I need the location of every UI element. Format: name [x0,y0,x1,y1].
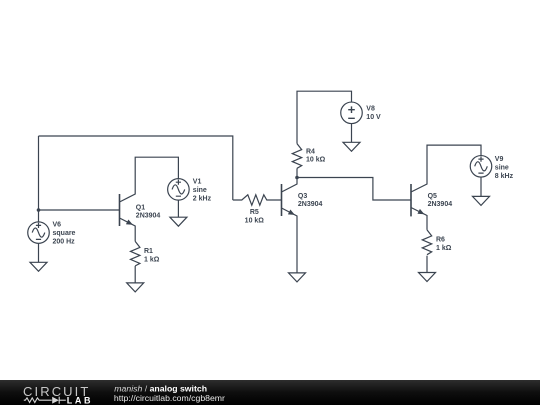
svg-text:1 kΩ: 1 kΩ [144,256,160,263]
svg-text:R1: R1 [144,248,153,255]
svg-text:http://circuitlab.com/cgb8emr: http://circuitlab.com/cgb8emr [114,393,225,403]
svg-text:2N3904: 2N3904 [298,201,323,208]
svg-text:10 kΩ: 10 kΩ [306,157,326,164]
svg-text:1 kΩ: 1 kΩ [436,245,452,252]
svg-text:2 kHz: 2 kHz [193,195,212,202]
svg-text:10 kΩ: 10 kΩ [245,218,265,225]
svg-text:2N3904: 2N3904 [136,213,161,220]
svg-text:200 Hz: 200 Hz [53,239,76,246]
svg-text:V8: V8 [366,106,375,113]
svg-text:R4: R4 [306,148,315,155]
svg-text:square: square [53,230,76,237]
svg-text:V6: V6 [53,222,62,229]
svg-text:Q3: Q3 [298,193,307,200]
svg-text:V9: V9 [495,156,504,163]
svg-text:sine: sine [495,165,509,172]
svg-text:8 kHz: 8 kHz [495,173,514,180]
svg-text:10 V: 10 V [366,114,381,121]
svg-text:manish / analog switch: manish / analog switch [114,383,207,393]
svg-text:Q5: Q5 [428,193,437,200]
svg-text:R6: R6 [436,237,445,244]
svg-text:R5: R5 [250,209,259,216]
svg-text:LAB: LAB [67,395,93,405]
svg-text:V1: V1 [193,179,202,186]
svg-text:sine: sine [193,187,207,194]
svg-text:2N3904: 2N3904 [428,201,453,208]
svg-text:Q1: Q1 [136,204,145,211]
